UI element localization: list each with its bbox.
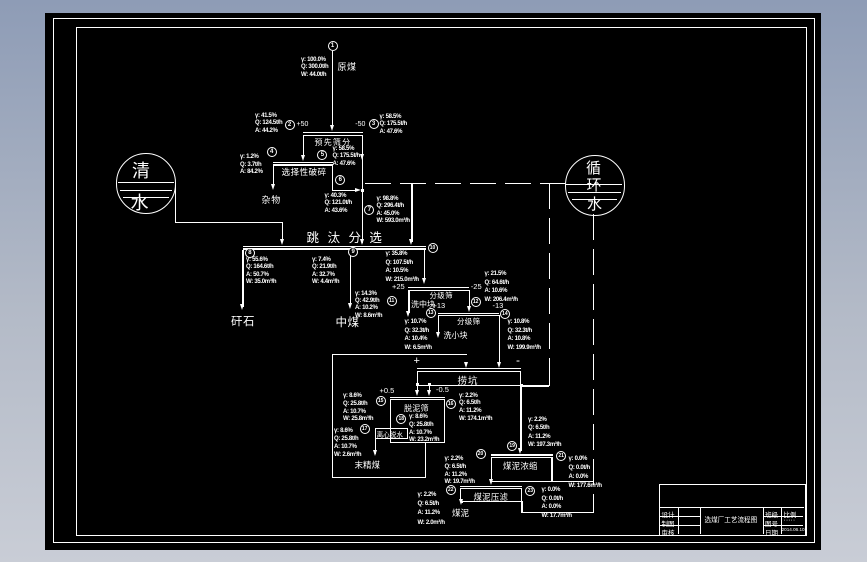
label -50 (355, 121, 365, 128)
arrow -13 into pit (497, 362, 501, 368)
title block col line 2 (700, 507, 701, 534)
filter left side (460, 488, 461, 501)
arrow clear water into jig (280, 239, 284, 245)
wire clear water horizontal (175, 222, 283, 223)
label 班级 (765, 509, 778, 519)
wire fine clean coal out (375, 438, 376, 454)
jig machine bar line 1 (243, 246, 427, 247)
node 18 data (409, 414, 439, 445)
label 图号 (765, 518, 778, 528)
label + (pit coarse side) (414, 355, 420, 367)
arrow +0.5 into desliming screen (415, 390, 419, 396)
node 1 (raw coal) (328, 41, 338, 51)
label 环 (587, 174, 602, 195)
node 12 data (485, 270, 518, 304)
circ water chord 3 (572, 199, 618, 200)
circulating-water tank 循环水 circle (565, 155, 625, 215)
wire filtrate to return line (521, 512, 594, 513)
arrow circ water into jig (409, 239, 413, 245)
screen U4 分级筛 top line 1 (438, 313, 499, 314)
desliming screen right side (444, 399, 445, 442)
wire screen underflow return (top) (332, 354, 468, 355)
node 2 data (255, 113, 282, 136)
node 5 data (333, 146, 360, 169)
node 13 data (405, 318, 432, 352)
title block col line 1 (678, 507, 679, 534)
thickener right side (551, 457, 552, 481)
water level chord 3 (123, 197, 169, 198)
label 洗小块 (washed small lump) (444, 330, 468, 341)
label 原煤 (raw coal) (338, 60, 357, 73)
label 选择性破碎 (282, 166, 327, 178)
node 4 (267, 147, 277, 157)
crusher U2 选择性破碎 top line 2 (273, 164, 333, 165)
screen1 right leg (-25) (469, 290, 470, 310)
node 8 data (246, 257, 276, 287)
arrow +50 into crusher (301, 155, 305, 161)
thickener left side (491, 457, 492, 481)
wire pit overflow to thickener (520, 385, 521, 451)
screen U6 脱泥筛 top line 2 (390, 399, 445, 400)
wire thickener underflow (491, 481, 492, 483)
inner border frame (76, 27, 807, 536)
label 比例 (784, 509, 797, 519)
arrow into screen 1 (422, 278, 426, 284)
desliming screen bottom (390, 442, 445, 443)
wire gangue down (242, 250, 243, 307)
thickener bottom (491, 481, 553, 482)
label 煤泥压滤 (474, 491, 509, 503)
node 9 (348, 247, 358, 257)
label 杂物 (debris) (262, 193, 282, 206)
filter U9 煤泥压滤 top line 2 (460, 488, 523, 489)
label - (pit fine side) (516, 353, 520, 367)
title block outer rect (659, 484, 806, 536)
wire return path left side (332, 354, 333, 477)
label +13 (433, 301, 446, 310)
label 水 (clear water) (131, 189, 149, 215)
wire pit +0.5 out (417, 385, 418, 394)
wire clear water down (175, 185, 176, 223)
wire -50 line down to jig (362, 135, 363, 243)
arrow -0.5 into desliming screen (427, 390, 431, 396)
arrow middlings (348, 303, 352, 309)
wire crusher out to -50 line (332, 190, 356, 191)
arrow +25 product (406, 311, 410, 317)
node 7 (364, 205, 374, 215)
label 煤泥 (slime) (452, 507, 469, 519)
node 11 data (355, 291, 382, 320)
label 日期 (765, 527, 778, 537)
node 6 data (325, 193, 352, 216)
node 23 (525, 486, 535, 496)
water level chord 2 (120, 190, 173, 191)
node 14 data (508, 318, 541, 352)
arrow gangue (240, 304, 244, 310)
wire circ water branch corner (521, 385, 549, 386)
circ water chord 1 (566, 184, 622, 185)
node 15 data (343, 393, 373, 424)
screen U4 分级筛 top line 2 (438, 315, 499, 316)
filter U9 煤泥压滤 top line 1 (460, 486, 523, 487)
junction on -50 line at crusher join (361, 189, 364, 192)
node 13 (426, 308, 436, 318)
wire middlings down (350, 250, 351, 306)
label 分级筛 #1 (430, 290, 453, 301)
title block row line 3 left (659, 525, 701, 526)
wire clear water to jig (282, 222, 283, 242)
label -25 (471, 282, 482, 291)
arrow into thickener (518, 448, 522, 454)
node 9 data (312, 257, 339, 287)
title block row line top (659, 507, 804, 508)
desliming screen left side (390, 399, 391, 442)
screen U1 预先筛分 top line 2 (303, 135, 363, 136)
arrow into pre-screen (330, 125, 334, 131)
crusher right side (332, 164, 333, 190)
title block row line 2 left (659, 516, 701, 517)
screen U1 left side (+50 leg) (303, 135, 304, 158)
wire return path riser (425, 443, 426, 478)
arrow -50 into jig (360, 239, 364, 245)
node 16 data (459, 393, 492, 424)
node 21 (556, 451, 566, 461)
node 10 (428, 243, 438, 253)
node 19 data (528, 416, 561, 450)
crusher U2 选择性破碎 top line 1 (273, 162, 333, 163)
title block col line 3 (763, 507, 764, 534)
node 5 (317, 150, 327, 160)
wire pit -0.5 out (429, 385, 430, 394)
label 分级筛 #2 (457, 316, 480, 327)
label 水 (circulating water) (587, 193, 602, 214)
pit left side (417, 371, 418, 385)
junction pit -0.5 tap (428, 383, 431, 386)
centrifuge U7 离心脱水 box (375, 428, 408, 439)
value dots (784, 517, 796, 524)
arrow return into pit (464, 362, 468, 368)
node 10 data (386, 250, 419, 284)
label 矸石 (gangue) (231, 313, 255, 329)
label -0.5 (436, 385, 449, 394)
node 16 (446, 399, 456, 409)
label 末精煤 (fine clean coal) (355, 459, 381, 471)
node 4 data (240, 154, 263, 177)
node 23 data (542, 486, 572, 521)
node 8 (245, 248, 255, 258)
thickener U8 煤泥浓缩 top line 1 (491, 454, 553, 455)
node 6 (335, 175, 345, 185)
drawing title (705, 514, 758, 524)
label +25 (392, 282, 405, 291)
arrow -25 into screen 2 (467, 306, 471, 312)
filter bottom (460, 501, 523, 502)
label 循 (586, 157, 601, 178)
water level chord 1 (118, 182, 174, 183)
wire raw-coal feed (332, 51, 333, 125)
filter right side (521, 488, 522, 501)
pit U5 捞坑 top line 1 (417, 368, 521, 369)
label 煤泥浓缩 (503, 460, 538, 472)
node 14 (500, 309, 510, 319)
node 20 (476, 449, 486, 459)
screen U3 分级筛 top line 1 (408, 287, 469, 288)
wire slime out (461, 501, 462, 503)
screen1 left leg (+25) (408, 290, 409, 314)
dashed circ water branch down (to thickener feed) (549, 183, 550, 379)
node 3 data (380, 114, 407, 137)
label 制图 (662, 518, 675, 528)
wire circ water branch to jig (411, 183, 412, 242)
arrow into filter press (489, 479, 493, 485)
jig machine bar line 2 (243, 248, 427, 249)
label 清 (132, 157, 150, 183)
screen2 right leg (-13) (499, 315, 500, 365)
node 2 (285, 120, 295, 130)
crusher left side (debris leg) (273, 164, 274, 186)
label 捞坑 (458, 373, 479, 387)
wire thickener overflow to return (553, 481, 595, 482)
label -13 (493, 301, 504, 310)
node 15 (376, 396, 386, 406)
clear-water tank 清水 circle (116, 153, 176, 213)
value date (782, 527, 805, 532)
arrow debris out (271, 184, 275, 190)
arrow fine clean coal (373, 450, 377, 456)
title block row line 3 right (763, 525, 803, 526)
pit right side (520, 371, 521, 385)
title block row line 2 right (763, 516, 803, 517)
arrow on -50 line (360, 154, 364, 160)
label 设计 (662, 509, 675, 519)
label 离心脱水 (377, 429, 403, 439)
screen2 left leg (+13) (438, 315, 439, 334)
node 17 data (334, 428, 361, 459)
node 19 (507, 441, 517, 451)
title 跳汰分选 (jigging separation) (307, 227, 385, 246)
node 22 (446, 485, 456, 495)
node 22 data (418, 491, 445, 528)
label +50 (297, 121, 309, 128)
node 17 (360, 424, 370, 434)
title block col line 4 (781, 507, 782, 534)
wire return path bottom (332, 477, 426, 478)
label 脱泥筛 (404, 403, 429, 414)
wire circ water branch end segment (549, 378, 550, 386)
label 预先筛分 (315, 137, 352, 148)
node 21 data (569, 455, 602, 491)
wire filtrate down (521, 501, 522, 512)
pit bottom (417, 385, 521, 386)
screen U3 分级筛 top line 2 (408, 290, 469, 291)
wire clean coal to screen 1 (424, 250, 425, 282)
junction pit +0.5 tap (416, 383, 419, 386)
node 12 (471, 297, 481, 307)
screen U6 脱泥筛 top line 1 (390, 397, 445, 398)
node 1 data (301, 57, 328, 80)
node 7 data (377, 196, 410, 226)
label 中煤 (middlings) (336, 314, 360, 330)
label +0.5 (380, 386, 395, 395)
arrow +13 product (436, 332, 440, 338)
dashed circ water return line (vertical) (593, 214, 594, 512)
junction at circ-water/thickener feed (520, 384, 523, 387)
node 20 data (445, 456, 475, 487)
node 18 (396, 414, 406, 424)
dashed circulating water main (horizontal) (365, 183, 565, 184)
label 洗中块 (washed mid lump) (411, 299, 435, 310)
label 审核 (662, 527, 675, 537)
arrow slime product (459, 499, 463, 505)
screen U1 预先筛分 top line 1 (303, 132, 363, 133)
node 3 (369, 119, 379, 129)
circ water chord 2 (568, 192, 621, 193)
node 11 (387, 296, 397, 306)
thickener U8 煤泥浓缩 top line 2 (491, 457, 553, 458)
pit U5 捞坑 top line 2 (417, 371, 521, 372)
arrow crusher product joins -50 line (355, 188, 361, 192)
